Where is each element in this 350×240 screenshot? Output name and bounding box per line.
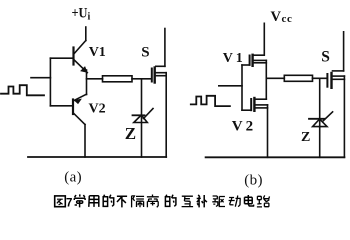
wire drain of S up (circuit b) <box>343 32 345 71</box>
wire base bracket (circuit a) <box>50 58 73 106</box>
caption char 的 <box>103 195 114 207</box>
wire gate bus bracket (circuit b) <box>242 65 251 110</box>
caption char 常 <box>74 194 85 207</box>
mosfet S (power switch, circuit a) <box>152 66 166 82</box>
wire resistor to gate of S (circuit b) <box>313 77 328 79</box>
svg-text:S: S <box>141 45 149 61</box>
caption char 的 second <box>165 195 176 207</box>
caption char 隔 <box>132 196 145 208</box>
transistor Q V1 (NPN, circuit a) <box>74 41 88 73</box>
svg-text:cc: cc <box>282 13 293 25</box>
svg-text:+U: +U <box>72 6 88 22</box>
wire node to zener (circuit a) <box>141 79 143 157</box>
waveform input pulses (circuit b) <box>191 96 230 106</box>
svg-text:Z: Z <box>301 130 310 145</box>
waveform input pulses (circuit a) <box>1 85 44 95</box>
svg-text:V2: V2 <box>89 102 106 117</box>
svg-text:V 2: V 2 <box>232 119 253 135</box>
svg-text:(a): (a) <box>64 170 82 186</box>
node Vcc supply label (circuit b) <box>271 9 293 25</box>
svg-text:Z: Z <box>125 124 136 143</box>
wire middle vertical V1 source to V2 drain (circuit b) <box>265 60 267 99</box>
caption 图7常用的不隔离的互补驱动电路 (drawn strokes) <box>55 194 270 209</box>
wire source of S down to rail (circuit b) <box>343 76 345 157</box>
svg-text:V 1: V 1 <box>223 51 243 66</box>
wire source of S down to rail (circuit a) <box>165 73 167 157</box>
caption char 用 <box>89 196 99 207</box>
svg-text:i: i <box>88 12 91 23</box>
svg-text:V1: V1 <box>89 45 106 60</box>
caption char 电 <box>245 195 254 206</box>
wire resistor to gate of S (circuit a) <box>132 78 152 80</box>
mosfet V2 (N-channel, circuit b) <box>251 98 267 111</box>
wire node to zener (circuit b) <box>319 78 321 157</box>
wire emitter junction vertical (circuit a) <box>86 70 88 95</box>
resistor R (gate resistor, circuit b) <box>284 75 312 81</box>
zener diode Z (circuit a) <box>133 109 154 123</box>
caption char 互 <box>182 196 194 206</box>
wire input line (circuit a) <box>31 77 50 79</box>
caption char 离 <box>147 195 159 208</box>
svg-text:7: 7 <box>66 198 72 210</box>
wire bottom rail (circuit a) <box>28 156 166 158</box>
caption char 驱 <box>212 196 225 207</box>
wire output to resistor (circuit b) <box>266 77 284 79</box>
wire drain of S up (circuit a) <box>164 29 166 67</box>
caption char 动 <box>229 196 241 207</box>
wire bottom rail (circuit b) <box>206 156 345 158</box>
node +Ui supply label (circuit a) <box>72 6 91 23</box>
zener diode Z (circuit b) <box>309 112 333 127</box>
caption char 图 <box>55 196 66 207</box>
transistor Q V2 (PNP, circuit a) <box>73 94 87 124</box>
wire V2 collector down to rail (circuit a) <box>84 125 86 158</box>
svg-text:V: V <box>271 9 282 25</box>
resistor R (gate resistor, circuit a) <box>103 76 133 82</box>
wire output to resistor (circuit a) <box>87 78 103 80</box>
caption char 补 <box>197 195 207 208</box>
caption char 路 <box>257 195 270 207</box>
wire from +Ui down to V1 collector <box>85 27 87 41</box>
wire from Vcc down to V1 drain (circuit b) <box>254 23 265 55</box>
svg-text:(b): (b) <box>244 173 263 189</box>
wire V2 source down to rail (circuit b) <box>267 105 269 157</box>
mosfet S (power switch, circuit b) <box>327 71 344 88</box>
svg-text:S: S <box>321 49 330 66</box>
wire input line (circuit b) <box>219 85 242 87</box>
caption char 不 <box>117 196 127 207</box>
mosfet V1 (P-channel, circuit b) <box>250 55 267 66</box>
